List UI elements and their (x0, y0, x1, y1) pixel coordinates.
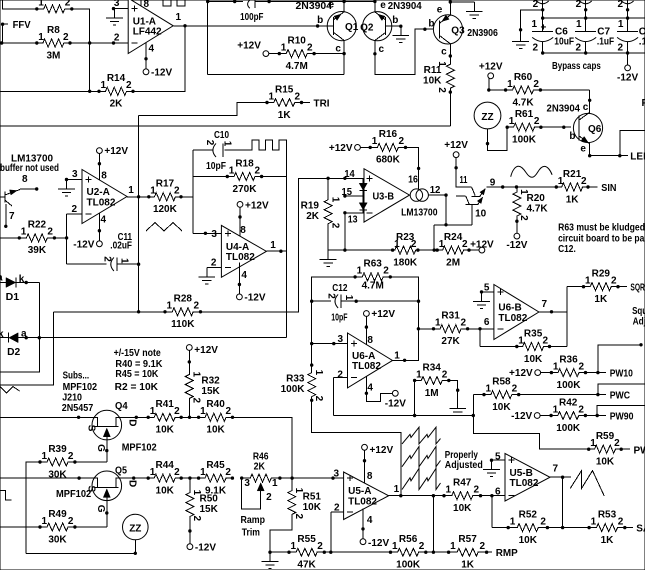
svg-text:2: 2 (518, 215, 529, 221)
svg-text:b: b (428, 19, 434, 30)
svg-text:4: 4 (241, 270, 247, 281)
wire U1-A out to Q1 base (185, 24, 334, 27)
wire R39 to Q4 gate (75, 461, 107, 463)
svg-text:2: 2 (533, 0, 539, 10)
svg-text:R28: R28 (174, 294, 193, 305)
svg-text:R47: R47 (453, 478, 472, 489)
wire R11 to long rail (449, 88, 452, 126)
svg-text:a: a (0, 273, 3, 284)
svg-text:e: e (437, 5, 443, 16)
svg-text:100K: 100K (396, 560, 421, 570)
wire U5-A output (389, 494, 444, 497)
svg-text:MPF102: MPF102 (63, 382, 98, 393)
svg-text:TRI: TRI (314, 98, 330, 109)
svg-text:2: 2 (575, 42, 581, 53)
power +12V at R10 (237, 41, 269, 57)
wire U1-A pin 4 (144, 43, 147, 69)
svg-text:1: 1 (291, 541, 297, 552)
power -12V at R42 (511, 411, 540, 422)
node FFV (1, 23, 8, 44)
svg-text:1: 1 (200, 406, 206, 417)
svg-text:R57: R57 (458, 534, 477, 545)
wire +12V to R60 (487, 79, 506, 92)
wire U4-A output / square bus (266, 150, 286, 338)
power -12V at U4-A pin 4 (237, 292, 266, 303)
op-amp U2-A TL082 (82, 170, 127, 224)
svg-text:-12V: -12V (617, 73, 638, 84)
wire R35 leads (480, 346, 567, 348)
svg-text:-12V: -12V (385, 399, 406, 410)
waveform square wave (247, 140, 287, 150)
svg-text:SQR: SQR (630, 283, 645, 294)
svg-text:2: 2 (532, 42, 538, 53)
svg-text:+12V: +12V (470, 239, 494, 250)
potentiometer R46 2K Ramp Trim (240, 452, 282, 539)
wire U6-B pin 5 (480, 290, 494, 293)
wire R41 to R40 (181, 416, 198, 419)
wire U6-A pin2 rail (333, 381, 475, 418)
svg-text:2N3904: 2N3904 (388, 1, 422, 12)
resistor R7 (top, name cut off) (35, 0, 73, 13)
svg-text:Square: Square (632, 306, 645, 317)
svg-text:2: 2 (540, 516, 546, 527)
power +12V at R36 (509, 368, 541, 379)
svg-text:R44: R44 (156, 460, 175, 471)
svg-text:R10: R10 (288, 35, 307, 46)
svg-text:12: 12 (430, 185, 441, 196)
wire +12V to R32 (188, 350, 191, 374)
wire R59 to PW (cut) (621, 448, 630, 450)
svg-text:b: b (569, 131, 575, 142)
wire R24 to +12V (469, 249, 479, 251)
svg-text:R45: R45 (206, 460, 225, 471)
resistor R8 3M (35, 25, 72, 62)
diode D1 (0, 273, 39, 303)
svg-text:11: 11 (460, 175, 468, 186)
svg-text:+12V: +12V (329, 143, 353, 154)
svg-text:R39: R39 (48, 444, 67, 455)
wire C11 line (67, 263, 139, 265)
svg-text:R40: R40 (206, 399, 225, 410)
svg-text:1: 1 (486, 383, 492, 394)
svg-text:1: 1 (518, 189, 529, 195)
svg-text:100K: 100K (556, 423, 581, 434)
svg-text:2: 2 (114, 33, 120, 44)
wire R49 to Q5 gate (75, 526, 107, 528)
wire U3-B pin 13 (343, 211, 364, 250)
capacitor C7 .1uF (575, 18, 614, 53)
wire R47 to U5-B pin 6 (481, 494, 506, 528)
svg-text:100K: 100K (281, 384, 306, 395)
svg-text:27K: 27K (441, 336, 460, 347)
svg-text:G: G (95, 444, 106, 452)
wire U5-A pin 8 (363, 450, 366, 483)
U1-A pin 8 stub (140, 0, 142, 6)
svg-text:c: c (379, 44, 385, 55)
svg-text:Ramp: Ramp (241, 515, 266, 526)
svg-text:1: 1 (357, 266, 363, 277)
wire Q5 source line (0, 476, 92, 479)
svg-text:R33: R33 (286, 374, 305, 385)
svg-text:R51: R51 (303, 492, 322, 503)
wire R10 pin2 to Q1 collector (314, 53, 344, 55)
svg-text:1: 1 (38, 32, 44, 43)
capacitor C11 .02uF (101, 232, 132, 271)
svg-text:2: 2 (534, 116, 540, 127)
power +12V at R32 (186, 345, 218, 357)
svg-text:15K: 15K (201, 386, 220, 397)
wire long rail y126 (0, 125, 450, 127)
wire R52 line (492, 527, 508, 529)
wire U3-B pin 15 (343, 194, 363, 197)
svg-text:Q6: Q6 (588, 124, 602, 135)
svg-text:10: 10 (475, 208, 487, 219)
svg-text:FFV: FFV (13, 20, 31, 31)
svg-text:+: + (541, 22, 547, 33)
svg-text:RMP: RMP (496, 548, 518, 559)
svg-text:2: 2 (225, 467, 231, 478)
svg-text:1: 1 (510, 516, 516, 527)
wire R28 line left corner (0, 312, 53, 385)
svg-text:R56: R56 (399, 534, 418, 545)
wire +12V to R16 (360, 146, 370, 148)
svg-text:R61: R61 (515, 109, 534, 120)
svg-text:Trim: Trim (242, 528, 260, 539)
svg-text:1: 1 (372, 136, 378, 147)
svg-text:Q1: Q1 (345, 22, 359, 33)
svg-text:ZZ: ZZ (129, 523, 141, 534)
svg-text:J210: J210 (62, 393, 82, 404)
resistor R15 1K (265, 84, 303, 121)
resistor R17 120K (147, 179, 183, 216)
svg-text:1: 1 (394, 350, 400, 361)
resistor R36 100K (550, 354, 588, 391)
svg-text:2: 2 (255, 165, 261, 176)
wire R42 to PW90 (585, 406, 645, 417)
svg-text:100K: 100K (512, 135, 537, 146)
wire Q3 collector (449, 44, 452, 64)
wire U2-A output bus x138.6 (137, 116, 140, 314)
wire left edge to R22 (0, 237, 19, 239)
svg-text:8: 8 (367, 471, 373, 482)
wire R19 ground line (328, 245, 393, 252)
svg-text:15K: 15K (200, 504, 219, 515)
svg-text:8: 8 (22, 174, 28, 185)
resistor R22 39K (18, 220, 57, 257)
svg-text:Q3: Q3 (451, 26, 465, 37)
svg-text:2: 2 (398, 136, 404, 147)
svg-text:10K: 10K (524, 354, 543, 365)
svg-text:7: 7 (9, 211, 15, 222)
svg-text:R2 = 10K: R2 = 10K (115, 382, 159, 393)
svg-text:1: 1 (269, 91, 275, 102)
svg-text:PWC: PWC (610, 390, 630, 401)
ground at bypass caps (512, 32, 529, 49)
wire +12V to R36 (541, 372, 552, 374)
svg-text:2: 2 (337, 370, 343, 381)
svg-text:4.7M: 4.7M (362, 280, 384, 291)
wire buffer pin 9 to R21 (486, 185, 556, 188)
wire R17 to C10 node (181, 196, 193, 198)
resistor R28 110K (163, 294, 202, 331)
wire U4-A pin 8 (238, 207, 241, 236)
svg-text:10K: 10K (519, 535, 538, 546)
ground at R34 (449, 399, 466, 416)
svg-text:1: 1 (191, 372, 202, 378)
svg-text:680K: 680K (376, 155, 401, 166)
svg-text:1: 1 (329, 197, 340, 203)
svg-text:2: 2 (211, 257, 217, 268)
waveform pulse mark left edge (0, 491, 12, 501)
wire ZZ to R61 pin1 (486, 127, 507, 150)
wire R29 to SQR (618, 286, 627, 288)
ground at R55 (262, 552, 279, 569)
wire R21 to SIN (588, 186, 598, 188)
svg-text:R42: R42 (559, 397, 578, 408)
wire R58 riser / R59 branch (473, 395, 588, 450)
svg-text:1: 1 (101, 80, 107, 91)
svg-text:1K: 1K (594, 294, 608, 305)
wire Q2 emitter (373, 0, 376, 12)
wire R31 input (418, 328, 433, 330)
svg-text:2: 2 (542, 335, 548, 346)
wire C10 to square wave (225, 149, 247, 151)
svg-text:2: 2 (193, 301, 199, 312)
signal source ZZ (bottom) (123, 514, 149, 540)
svg-text:10K: 10K (453, 503, 472, 514)
ground at R19 (320, 250, 337, 267)
power +12V at R24 (470, 239, 494, 253)
power -12V at R20 (506, 233, 527, 251)
svg-text:2: 2 (174, 406, 180, 417)
svg-text:4.7K: 4.7K (527, 204, 549, 215)
svg-text:2: 2 (436, 87, 447, 93)
svg-text:-12V: -12V (506, 240, 527, 251)
svg-text:1: 1 (553, 361, 559, 372)
svg-text:Q4: Q4 (115, 401, 128, 412)
wire R61 to Q6 base (541, 126, 571, 129)
svg-text:R20: R20 (527, 193, 546, 204)
svg-text:2: 2 (617, 42, 623, 53)
svg-text:1: 1 (176, 12, 182, 23)
svg-text:1K: 1K (566, 194, 580, 205)
svg-text:2: 2 (462, 239, 468, 250)
svg-text:2N5457: 2N5457 (62, 403, 94, 414)
wire bypass bottom rail (541, 51, 645, 65)
wire R60 to Q6 collector (540, 89, 589, 91)
wire U2-A pin 4 (98, 213, 101, 241)
svg-text:2: 2 (293, 514, 304, 520)
svg-text:R63 must be kludged: R63 must be kludged (558, 223, 645, 234)
svg-text:1: 1 (416, 369, 422, 380)
wire C10 loop left (193, 150, 212, 233)
svg-text:2: 2 (578, 404, 584, 415)
wire U5-A pin 4 (361, 509, 364, 539)
svg-text:1: 1 (618, 19, 624, 30)
svg-text:10K: 10K (423, 76, 442, 87)
svg-text:1: 1 (392, 541, 398, 552)
op-amp U1-A LF442 (128, 0, 173, 54)
resistor R14 2K (97, 73, 134, 110)
svg-text:1: 1 (229, 165, 235, 176)
svg-text:R52: R52 (519, 509, 538, 520)
ground at Q3 emitter (466, 2, 483, 19)
resistor R58 10K (482, 376, 520, 413)
power +12V at U4-A pin 8 (237, 200, 269, 211)
svg-text:-12V: -12V (195, 543, 216, 554)
wire TRI line (139, 103, 267, 116)
svg-text:R22: R22 (28, 220, 47, 231)
waveform ramp example 1 (402, 427, 441, 444)
ota U3-B LM13700 (359, 169, 428, 222)
capacitor top-row stub 3 (618, 0, 634, 18)
svg-text:PW10: PW10 (610, 369, 634, 380)
resistor R52 10K (507, 509, 550, 546)
transistor Q3 2N3906 (433, 15, 465, 44)
svg-text:+/-15V note: +/-15V note (114, 348, 162, 359)
svg-text:1: 1 (591, 516, 597, 527)
diode D2 (0, 328, 27, 358)
svg-text:2: 2 (101, 256, 112, 262)
svg-text:D: D (126, 480, 137, 487)
power +12V at R16 (329, 143, 361, 154)
wire Q2 collector to Q3 base (373, 28, 440, 75)
svg-text:270K: 270K (233, 184, 258, 195)
svg-text:1K: 1K (601, 535, 615, 546)
svg-text:2: 2 (225, 406, 231, 417)
svg-text:.1uF: .1uF (639, 37, 645, 48)
svg-text:MPF102: MPF102 (122, 443, 157, 454)
svg-text:R29: R29 (592, 269, 611, 280)
op-amp U6-A TL082 (348, 333, 393, 388)
capacitor C (top edge stub 1) (163, 0, 171, 6)
resistor R42 100K (549, 397, 587, 434)
svg-text:7: 7 (542, 299, 548, 310)
svg-text:16: 16 (408, 175, 418, 186)
resistor R47 10K (442, 478, 482, 515)
svg-text:1: 1 (436, 61, 447, 67)
resistor R20 4.7K (513, 187, 549, 221)
wire U5-A pin 2 (331, 512, 344, 552)
svg-text:1: 1 (507, 79, 513, 90)
resistor R32 15K (185, 372, 220, 404)
wire Q4 drain (122, 416, 149, 419)
transistor buffer Q (LM13700 pins 11/10/9) (465, 187, 485, 205)
svg-text:6: 6 (495, 487, 501, 498)
resistor R39 30K (38, 444, 76, 481)
svg-text:PW90: PW90 (610, 411, 634, 422)
svg-text:LM13700: LM13700 (401, 208, 438, 219)
svg-text:R18: R18 (235, 158, 254, 169)
svg-text:-12V: -12V (368, 538, 389, 549)
svg-text:R63: R63 (364, 259, 383, 270)
svg-text:-12V: -12V (511, 411, 532, 422)
svg-text:1M: 1M (425, 388, 439, 399)
svg-text:1K: 1K (461, 560, 475, 570)
svg-text:5: 5 (495, 451, 501, 462)
wire R63 loop (312, 277, 419, 301)
buffer transistor (pins 8,7, cut at left edge) (0, 174, 38, 228)
wire -12V to R42 (540, 415, 551, 417)
svg-text:180K: 180K (393, 257, 418, 268)
svg-text:2: 2 (578, 361, 584, 372)
svg-text:1: 1 (343, 295, 354, 301)
svg-text:1: 1 (446, 485, 452, 496)
svg-text:1: 1 (191, 490, 202, 496)
wire D2 line (square net) (18, 336, 286, 339)
transistor Q4 MPF102 (85, 410, 137, 452)
waveform triangle mark left edge (0, 387, 20, 394)
svg-text:R31: R31 (441, 311, 460, 322)
resistor R63 4.7M (353, 259, 392, 292)
resistor R56 100K (389, 534, 428, 570)
wire R56 to R57 node (426, 496, 449, 554)
transistor Q6 2N3904 (573, 112, 602, 143)
waveform sawtooth out (570, 471, 604, 497)
svg-text:1: 1 (42, 516, 48, 527)
capacitor C10 10pF (204, 130, 232, 172)
wire Q6 emitter to LED (588, 131, 645, 158)
resistor R57 1K (447, 534, 488, 570)
power -12V at bypass caps (617, 65, 638, 84)
svg-text:R55: R55 (297, 534, 316, 545)
svg-text:c: c (441, 47, 447, 58)
wire R55 to R56 (324, 551, 390, 554)
svg-text:10pF: 10pF (331, 313, 347, 324)
power -12V at U1-A pin 4 (143, 67, 172, 78)
wire R14 line (0, 90, 99, 93)
svg-text:10K: 10K (206, 425, 225, 436)
svg-text:4: 4 (367, 382, 373, 393)
ground at Q2 base (392, 26, 409, 43)
svg-text:R40 = 9.1K: R40 = 9.1K (115, 359, 163, 370)
svg-text:2: 2 (68, 451, 74, 462)
svg-text:8: 8 (240, 225, 246, 236)
svg-text:2: 2 (326, 293, 337, 299)
svg-text:2: 2 (329, 223, 340, 229)
svg-text:LED: LED (630, 152, 645, 163)
svg-text:1K: 1K (278, 110, 292, 121)
wire U3-B pin 12 output (428, 193, 472, 251)
waveform sine wave (511, 166, 552, 177)
svg-text:2: 2 (191, 516, 202, 522)
svg-text:Q2: Q2 (360, 22, 374, 33)
svg-text:R6: R6 (642, 98, 645, 109)
svg-text:R16: R16 (379, 129, 398, 140)
svg-text:LF442: LF442 (133, 27, 162, 38)
wire PWC stub (596, 384, 645, 397)
svg-text:1: 1 (270, 240, 276, 251)
wire R34 pin2 to ground (449, 381, 460, 400)
svg-text:R8: R8 (47, 25, 60, 36)
svg-text:14: 14 (344, 169, 355, 180)
svg-text:ZZ: ZZ (481, 112, 493, 123)
svg-text:10uF: 10uF (554, 37, 574, 48)
svg-text:10K: 10K (596, 457, 615, 468)
svg-text:2: 2 (313, 396, 324, 402)
svg-text:2: 2 (442, 369, 448, 380)
wire U5-B pin 5 (490, 459, 505, 462)
svg-text:1: 1 (21, 227, 27, 238)
svg-text:4: 4 (101, 214, 107, 225)
wire Q4 source line (0, 416, 92, 419)
wire Q1 emitter (342, 0, 345, 12)
svg-text:2K: 2K (306, 211, 320, 222)
wire ZZ to R39 node (26, 540, 137, 555)
resistor R11 10K (423, 61, 454, 93)
svg-text:1: 1 (38, 0, 44, 9)
svg-text:10pF: 10pF (206, 161, 226, 172)
